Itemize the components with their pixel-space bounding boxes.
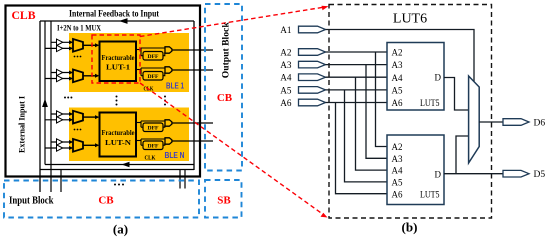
arrowhead into mux <box>69 77 73 81</box>
svg-text:A2: A2 <box>280 47 292 57</box>
svg-text:External Input I: External Input I <box>17 95 27 153</box>
arrowhead into LUT <box>95 143 99 147</box>
connector D6 <box>503 119 529 126</box>
wire A1 select <box>326 30 475 83</box>
wire A5 to upper LUT5 <box>326 89 388 91</box>
buffer on input a <box>57 39 63 45</box>
wire lower D branch to mux <box>456 136 468 174</box>
wire mux1 input b <box>45 47 72 49</box>
connector A5 <box>299 87 326 94</box>
svg-text:A2: A2 <box>392 142 403 152</box>
svg-text:Fracturable: Fracturable <box>102 54 135 62</box>
buffer <box>57 139 63 145</box>
DFF N1 <box>143 123 163 132</box>
svg-text:A4: A4 <box>280 73 292 83</box>
wire mux2 input a <box>51 72 72 74</box>
wire DFF1 to out mux <box>163 52 165 55</box>
wire muxN1 input a <box>51 113 72 115</box>
wire BLE1 out2 <box>172 69 213 71</box>
output select gate 2 <box>165 67 172 73</box>
wire LUTN out1 <box>136 121 165 127</box>
buffer <box>57 75 63 81</box>
svg-text:A1: A1 <box>280 25 292 35</box>
mux M1 trapezoid <box>73 39 83 52</box>
dots more muxes BLE1 <box>74 56 82 58</box>
Fracturable LUT-1 box <box>100 42 137 82</box>
wire A5 drop to lower LUT5 <box>345 90 388 182</box>
svg-text:A4: A4 <box>392 166 403 176</box>
DFF 1 <box>143 52 163 61</box>
svg-text:LUT-N: LUT-N <box>105 138 132 147</box>
connector A3 <box>299 61 326 68</box>
wire DFFN1 to out mux <box>163 125 165 127</box>
red dashed zoom line top <box>140 7 325 37</box>
arrowhead into mux <box>69 112 73 116</box>
bottom feedback return line with left arrow <box>45 164 194 166</box>
arrowhead into mux <box>69 146 73 150</box>
svg-text:CB: CB <box>98 195 114 207</box>
svg-text:CB: CB <box>217 92 233 104</box>
BLE N orange block <box>69 108 189 162</box>
wire LUT out2 <box>136 68 165 76</box>
buffer on input b <box>57 45 63 51</box>
svg-text:A5: A5 <box>280 85 292 95</box>
lower LUT5 box U2 <box>387 135 444 205</box>
arrowhead into mux <box>69 71 73 75</box>
vertical dots under LUT column <box>116 96 118 106</box>
arrowhead into LUT <box>95 43 99 47</box>
svg-text:A6: A6 <box>280 98 292 108</box>
svg-text:A5: A5 <box>392 86 403 96</box>
mux MN1 trapezoid <box>73 111 83 124</box>
wire A6 to upper LUT5 <box>326 102 388 104</box>
dots between BLEs left <box>64 97 72 99</box>
wire muxN1 to LUT <box>83 116 96 118</box>
wire BLE1 out1 <box>172 49 213 51</box>
svg-text:D: D <box>435 72 442 82</box>
arrowhead into LUT <box>95 74 99 78</box>
arrowhead into mux <box>69 140 73 144</box>
wire DFF2 to out mux <box>163 72 165 75</box>
svg-text:A6: A6 <box>392 98 403 108</box>
connector A2 <box>299 49 326 56</box>
buffer <box>57 69 63 75</box>
wire A4 to upper LUT5 <box>326 76 388 78</box>
SB dashed box <box>205 180 242 218</box>
svg-text:BLE N: BLE N <box>165 151 185 160</box>
buffer <box>57 117 63 123</box>
output select gate N1 <box>165 120 172 126</box>
output mux 2:1 <box>469 76 480 163</box>
buffer <box>57 145 63 151</box>
svg-text:A3: A3 <box>392 60 403 70</box>
svg-text:(b): (b) <box>402 220 418 235</box>
vertical dots under DFF column <box>164 96 166 106</box>
svg-text:A2: A2 <box>392 48 403 58</box>
svg-text:DFF: DFF <box>148 54 159 60</box>
inner feedback box (I+2N to 1 MUX region) <box>40 21 194 192</box>
LUT6 dashed box <box>329 5 492 219</box>
svg-text:LUT5: LUT5 <box>420 189 440 199</box>
output select gate N2 <box>165 138 172 144</box>
svg-text:Internal Feedback to Input: Internal Feedback to Input <box>69 9 159 19</box>
svg-text:Output Block: Output Block <box>222 22 232 79</box>
wire A2 drop to lower LUT5 <box>376 52 388 147</box>
svg-text:LUT6: LUT6 <box>393 12 427 27</box>
svg-text:A6: A6 <box>392 189 403 199</box>
input stub line <box>60 170 62 193</box>
wire A2 to upper LUT5 <box>326 51 388 53</box>
wire mux2 to LUT <box>83 75 96 77</box>
Fracturable LUT-N box <box>100 113 137 157</box>
svg-text:Input Block: Input Block <box>9 196 54 207</box>
svg-text:I+2N to 1 MUX: I+2N to 1 MUX <box>57 24 101 33</box>
output select gate 1 <box>165 47 172 53</box>
wire muxN2 input a <box>51 141 72 143</box>
buffer <box>57 111 63 117</box>
wire mux1 input a <box>51 41 72 43</box>
feedback vertical line with up arrow <box>44 21 46 165</box>
svg-text:CLB: CLB <box>12 10 36 22</box>
svg-text:Fracturable: Fracturable <box>102 129 135 137</box>
input vertical line <box>50 21 52 192</box>
wire A6 drop to lower LUT5 <box>336 103 388 194</box>
wire mux1 to LUT <box>83 44 96 46</box>
arrowhead into mux <box>69 46 73 50</box>
CLB outer box <box>6 6 201 177</box>
red dashed zoom line bottom <box>140 83 324 215</box>
svg-text:DFF: DFF <box>148 143 159 149</box>
right bottom stubs to input block <box>179 170 181 189</box>
wire A3 to upper LUT5 <box>326 64 388 66</box>
Input Block dashed box <box>4 181 199 218</box>
dots input block <box>114 184 124 186</box>
svg-text:CLK: CLK <box>145 155 156 162</box>
wire A3 drop to lower LUT5 <box>366 65 387 159</box>
svg-text:A4: A4 <box>392 73 403 83</box>
wire LUTN out2 <box>136 139 165 145</box>
svg-text:BLE 1: BLE 1 <box>166 82 184 91</box>
mux M2 trapezoid <box>73 70 83 83</box>
svg-text:D6: D6 <box>534 119 546 129</box>
arrowhead into mux <box>69 40 73 44</box>
mux MN2 trapezoid <box>73 139 83 152</box>
red dashed zoom box around LUT-1 <box>92 35 140 83</box>
svg-text:(a): (a) <box>113 222 128 237</box>
svg-text:A3: A3 <box>392 154 403 164</box>
DFF N2 <box>143 141 163 150</box>
wire muxN1 input b <box>45 119 72 121</box>
up arrowhead on feedback vertical <box>42 99 48 108</box>
svg-text:D: D <box>435 169 442 179</box>
connector A6 <box>299 99 326 106</box>
wire muxN2 input b <box>45 147 72 149</box>
connector A4 <box>299 74 326 81</box>
dots more muxes BLEN <box>74 129 82 131</box>
wire mux out to D6 <box>479 121 503 123</box>
svg-text:A5: A5 <box>392 178 403 188</box>
svg-text:A3: A3 <box>280 60 292 70</box>
wire mux2 input b <box>45 78 72 80</box>
upper LUT5 box U1 <box>387 43 444 111</box>
connector A1 <box>299 26 326 33</box>
svg-text:SB: SB <box>217 195 231 207</box>
wire LUT out1 <box>136 48 165 56</box>
svg-text:DFF: DFF <box>148 74 159 80</box>
Output Block dashed box <box>205 4 242 171</box>
wire DFFN2 to out mux <box>163 143 165 145</box>
arrow left on top feedback line <box>119 18 128 24</box>
arrowhead into mux <box>69 118 73 122</box>
wire lower D to D5 output <box>444 173 503 175</box>
DFF 2 <box>143 72 163 81</box>
wire BLEN out1 <box>172 122 213 124</box>
BLE 1 orange block <box>69 33 189 92</box>
svg-text:D5: D5 <box>534 170 546 180</box>
connector D5 <box>503 170 529 177</box>
wire muxN2 to LUT <box>83 144 96 146</box>
svg-text:DFF: DFF <box>148 125 159 131</box>
arrowhead into LUT <box>95 115 99 119</box>
svg-text:LUT5: LUT5 <box>420 98 440 108</box>
wire upper D to mux <box>444 78 468 111</box>
svg-text:LUT-1: LUT-1 <box>106 63 130 72</box>
wire A4 drop to lower LUT5 <box>356 77 388 170</box>
wire BLEN out2 <box>172 140 213 142</box>
